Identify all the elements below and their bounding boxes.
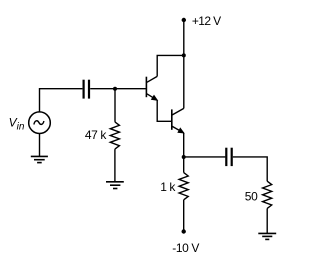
- svg-text:-10 V: -10 V: [172, 241, 199, 255]
- transistor Q2: [172, 108, 184, 132]
- svg-text:+12 V: +12 V: [192, 14, 221, 28]
- capacitor C1: [84, 80, 89, 99]
- resistor R3 50: [263, 181, 272, 208]
- wire node to C2: [184, 156, 226, 158]
- transistor Q1: [146, 76, 157, 100]
- svg-text:50: 50: [245, 190, 258, 204]
- node (emitter output): [182, 155, 186, 159]
- resistor R2 1 k: [179, 173, 188, 200]
- wire 47k to ground: [114, 149, 116, 182]
- ground (50): [258, 233, 276, 239]
- wire source-bottom: [39, 134, 41, 157]
- node (base junction): [113, 87, 117, 91]
- svg-text:1 k: 1 k: [160, 180, 176, 194]
- resistor R1 47 k: [110, 122, 119, 149]
- svg-text:47 k: 47 k: [85, 128, 107, 142]
- source V1 (AC): [29, 112, 51, 134]
- wire 1k to -10V terminal: [183, 200, 185, 232]
- +12V rail wire: [183, 20, 185, 108]
- ground (source): [31, 156, 48, 162]
- capacitor C2: [226, 148, 231, 166]
- wire Q2 emitter down: [183, 133, 185, 157]
- svg-text:Vin: Vin: [9, 115, 25, 132]
- wire node down to 47k: [114, 89, 116, 122]
- wire source-top to C1: [40, 89, 83, 112]
- node (collector junction on +12V rail): [182, 53, 186, 57]
- wire 50 to ground: [266, 208, 268, 233]
- wire C1 to Q1 base: [90, 88, 146, 90]
- wire Q1 emitter to Q2 base: [157, 100, 171, 121]
- ground (47k): [106, 182, 124, 189]
- wire Q1 collector up: [157, 55, 184, 76]
- wire node to 1k: [183, 157, 185, 173]
- sine symbol: [34, 121, 44, 125]
- terminal +12 V: [182, 18, 186, 22]
- wire C2 to 50: [233, 157, 267, 181]
- terminal -10 V: [182, 229, 186, 233]
